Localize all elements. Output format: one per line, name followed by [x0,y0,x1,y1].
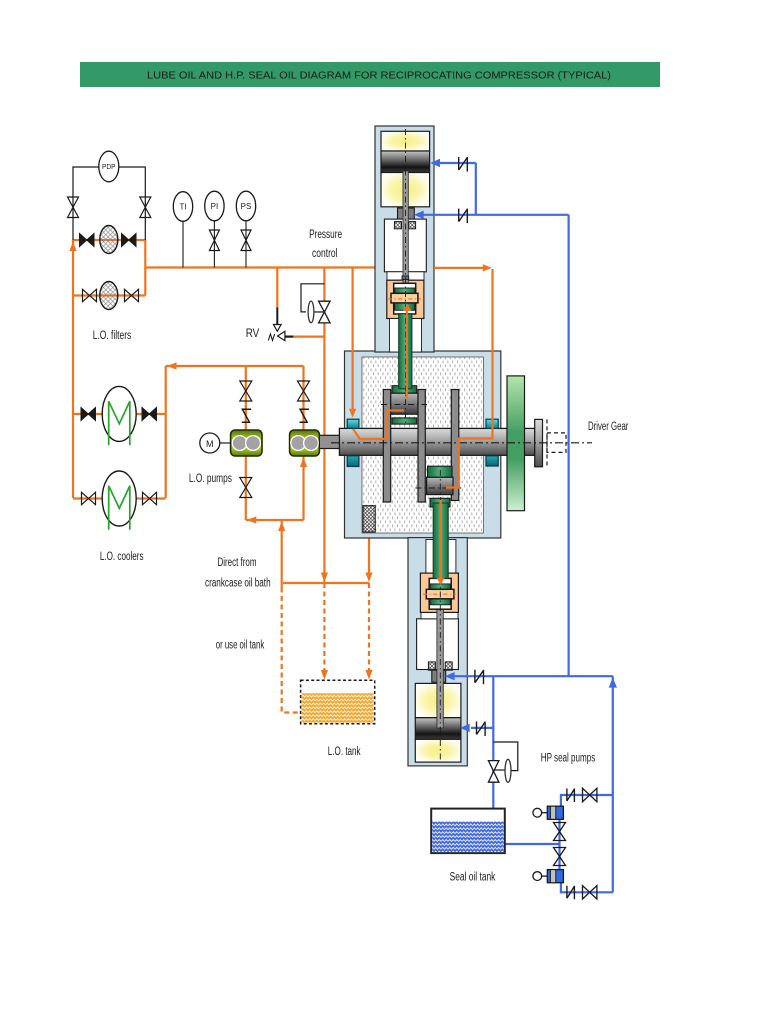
svg-text:TI: TI [179,203,186,212]
instrument PDP [99,151,119,182]
lower piston [415,718,461,740]
wire oil down lower connecting rod [440,500,442,578]
valve pump2 discharge [298,381,310,401]
top cylinder casing [375,126,434,352]
wire RV outlet to control line [293,336,325,338]
crank pin 2 green upper [428,466,453,477]
wire tank outlet [505,843,560,845]
svg-text:RV: RV [246,328,260,340]
arrow right to right bearing drop [483,264,492,271]
top crosshead box [387,280,424,318]
wire cooler-to-filter riser [72,240,74,498]
wire header to right bearing [434,267,486,269]
svg-text:Pressure: Pressure [309,229,342,241]
valve cooler B outlet [143,492,157,504]
top packing right [409,222,416,229]
wire HP pump1 discharge [561,795,613,807]
valve cooler A inlet (closed) [81,408,96,421]
main bearing left lower [347,456,359,467]
driver gear [507,376,525,511]
svg-text:control: control [312,248,338,260]
crank web 2 [418,390,425,503]
valve pump1 suction [240,478,252,498]
arrow up from bath riser [278,522,285,532]
wire pump1 suction [245,456,247,520]
wire pump discharge header [166,365,304,367]
crank web 3 [451,390,459,501]
svg-text:or use oil tank: or use oil tank [216,640,265,652]
wire suction header [246,519,304,521]
cooler B [102,471,136,530]
line break symbol top piston line [459,157,468,172]
wire HP pump2 discharge [561,883,613,893]
wire pump1 discharge drop [245,366,247,430]
lower connecting rod [433,503,448,578]
coupling flange [535,419,543,466]
pump drive stub shaft [319,435,339,448]
crank pin 1 centerline [381,404,427,406]
arrow into top gland [414,211,424,219]
instrument TI [173,192,192,268]
top connecting rod [399,314,412,389]
lower packing left [428,662,435,670]
arrow into lower piston [460,724,470,732]
TITLEBAR [80,62,660,87]
line break symbol HP2 discharge [567,886,575,900]
wire seal branch riser [475,163,477,215]
valve filter A outlet (closed) [122,234,137,247]
HP pump 1 [533,806,564,819]
svg-text:PDP: PDP [102,164,116,171]
wire seal main riser [567,215,569,676]
wire pump2 suction [302,456,304,520]
top packing left [394,222,401,229]
wire HP discharge riser [612,676,614,892]
svg-text:PS: PS [241,202,252,211]
valve filter B inlet [83,289,97,301]
svg-text:LUBE OIL AND H.P. SEAL OIL DIA: LUBE OIL AND H.P. SEAL OIL DIAGRAM FOR R… [147,70,611,82]
arrow down on drain drop [365,573,372,583]
arrow into lower gland [445,672,455,680]
wire left bearing to crank pin 1 [353,411,404,440]
wire cooler run B [73,497,166,499]
wire dashed riser to tank elbow [282,588,299,713]
wire dashed tank drop B [368,583,370,670]
lower distance piece [417,619,459,670]
wire pump2 discharge drop [302,366,304,430]
pump LO-1 [231,430,262,456]
crank pin 1 green upper [392,386,417,394]
lower crosshead box [420,573,458,612]
svg-text:L.O. pumps: L.O. pumps [189,473,232,485]
valve filter A inlet (closed) [80,234,95,247]
arrow down on control branch [321,573,328,583]
lower piston rod [437,606,443,728]
arrow up HP discharge riser [609,678,617,688]
svg-text:L.O. tank: L.O. tank [328,746,361,758]
arrow left on suction header [247,516,256,523]
crank pin 1 bearing [391,393,418,414]
wire suction from crankcase riser [281,520,283,588]
wire seal control drop [492,676,494,808]
HP pump 2 [533,870,564,883]
PIPES-LUBE [73,240,375,713]
relief valve RV [268,308,293,341]
LO tank [301,680,375,723]
top crosshead [388,283,421,314]
crankcase interior hatch [362,357,484,533]
lower packing right [445,662,452,670]
wire cooler run A [73,413,166,415]
top rod nut [402,276,409,280]
wire filter run B bypass [73,294,145,296]
arrow down into tank A [321,670,328,680]
crank pin 2 centerline [415,487,461,489]
check valve pump1 [242,409,251,422]
wire filter run A [73,239,145,241]
top rod gland [398,208,415,220]
crankshaft centerline [331,442,592,444]
wire direct-from-bath header [283,582,369,584]
OVERLAY [353,268,493,579]
driver dashed outline [547,419,566,466]
wire crankcase drain drop [368,533,370,574]
top cylinder lower space [381,173,430,207]
instrument PS [236,191,255,267]
arrow down to left bearing [349,409,356,418]
wire seal lower header [453,675,613,677]
wire dashed tank drop A [323,583,325,670]
crankshaft [339,428,534,455]
valve filter B outlet [125,289,139,301]
wire filter outlet drop [144,240,146,296]
seal oil tank [431,809,505,854]
crank pin 2 bearing [427,477,453,494]
wire seal to top piston [439,162,476,164]
wire seal to lower piston [471,727,493,729]
lower cylinder bore bottom space [415,739,461,762]
valve PI root [209,230,219,251]
arrow into top piston [430,159,440,167]
line break symbol HP1 discharge [567,789,575,803]
valve cooler A outlet (closed) [142,408,157,421]
wire pressure-control branch down to suction header [323,268,325,584]
line break symbol lower piston line [477,722,486,737]
top distance piece [384,219,426,272]
filter B [100,282,118,310]
top piston rod [403,171,408,284]
cooler A [102,386,136,445]
instrument PI [205,191,224,267]
arrow up into top crosshead [403,304,411,311]
valve HP suction upper [554,823,566,841]
wire PDP loop [73,167,145,240]
valve pump1 discharge [240,381,252,401]
valve PS root [241,230,251,251]
top cylinder centerline [405,129,407,425]
line break symbol top gland line [459,209,468,224]
svg-text:Driver Gear: Driver Gear [588,421,629,433]
arrow left on cooler feed [167,362,177,369]
wire pump suction tee [558,807,560,870]
valve PDP left [68,197,79,218]
top piston [381,151,430,173]
lower cylinder upper space [415,683,461,717]
lower cylinder casing [408,538,467,766]
svg-text:HP seal pumps: HP seal pumps [541,753,596,765]
top lower frame [390,319,422,353]
wire supply header [145,266,375,268]
valve HP suction lower [554,848,566,866]
svg-text:crankcase oil bath: crankcase oil bath [205,578,271,590]
line break symbol lower gland line [475,670,484,685]
svg-text:M: M [206,439,214,449]
svg-text:Direct from: Direct from [217,557,256,569]
wire seal to top gland [422,214,569,216]
filter A [100,226,118,254]
wire RV branch [276,268,278,308]
top cylinder head space [381,131,430,151]
crank pin 1 green lower [392,418,417,424]
lower neck interior [426,540,456,575]
lower rod gland [432,670,446,682]
crankcase body [345,351,501,538]
wire left bearing feed [352,268,354,410]
svg-text:Seal oil tank: Seal oil tank [450,872,496,884]
wire oil up top connecting rod [406,309,408,400]
crankcase drain strainer [363,506,375,532]
crank web 1 [383,390,390,503]
top mid flange [387,272,424,280]
wire cooler feed riser [165,366,167,498]
lower mid flange [421,612,458,618]
crank pin 2 green lower [430,498,450,507]
svg-text:PI: PI [211,202,219,211]
lower cylinder centerline [439,470,441,760]
lower crosshead [423,578,456,609]
valve HP2 discharge [583,886,597,899]
pump LO-2 [290,430,320,456]
check valve pump2 [300,409,309,422]
valve PDP right [140,197,151,218]
arrow up into filters [69,242,76,252]
valve cooler B inlet [82,492,96,504]
svg-text:L.O. filters: L.O. filters [93,330,132,342]
arrow up into pump2 [300,458,307,468]
valve HP1 discharge [583,788,597,801]
motor M for pump1 [200,433,231,453]
control valve seal pressure [488,742,517,782]
main bearing right lower [486,456,498,466]
control valve lube pressure [301,284,330,323]
arrow down into lower crosshead [436,578,444,585]
svg-text:L.O. coolers: L.O. coolers [100,551,144,563]
arrow down into tank B [365,670,372,680]
SEALOIL [422,163,613,892]
wire right bearing drop [446,269,493,488]
main bearing left upper [347,419,359,428]
main bearing right upper [486,419,498,428]
